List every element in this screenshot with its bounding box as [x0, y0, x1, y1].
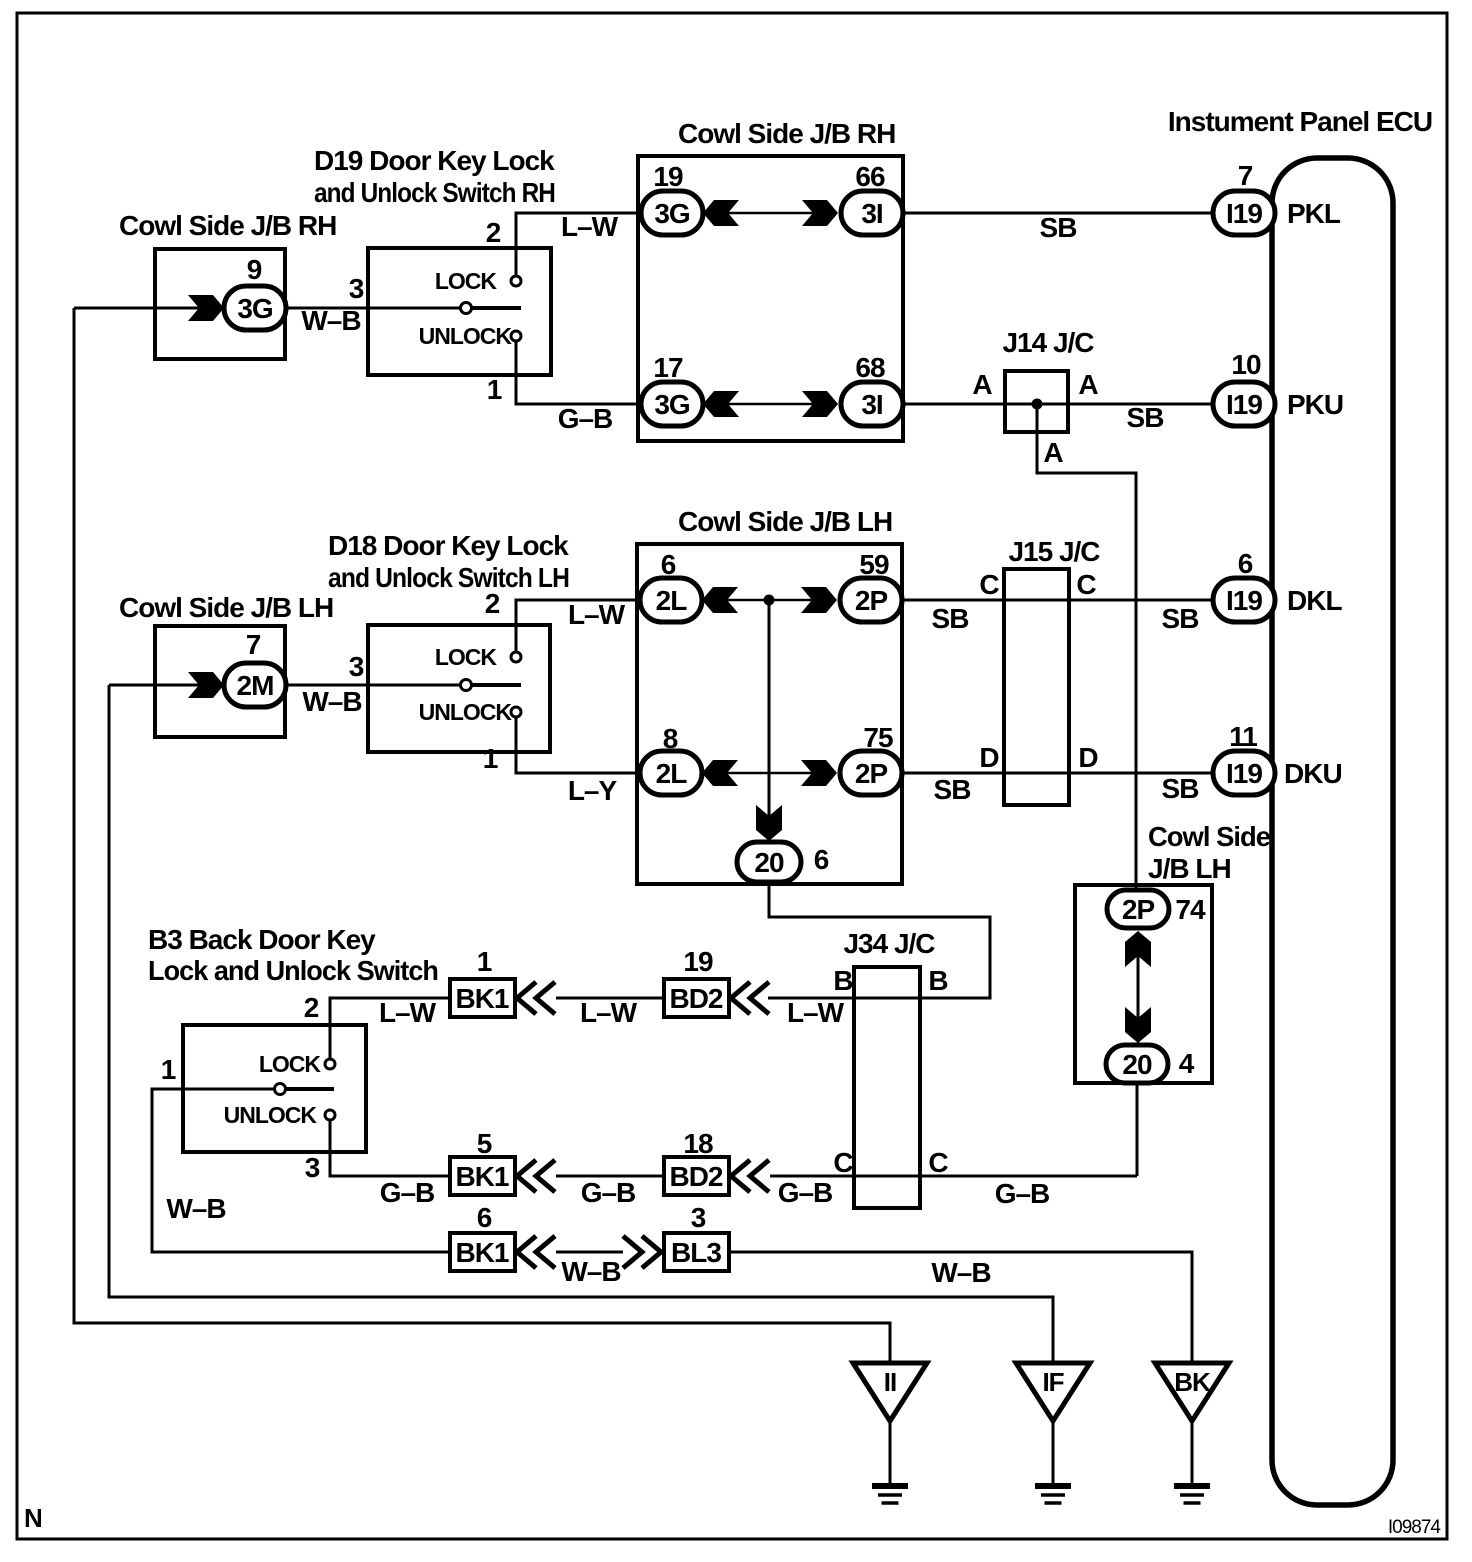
svg-text:L–W: L–W: [568, 599, 626, 630]
svg-text:J/B LH: J/B LH: [1148, 853, 1231, 884]
wire G-B BK1 to BD2: [556, 1175, 664, 1178]
svg-text:2: 2: [485, 588, 500, 619]
svg-text:74: 74: [1175, 894, 1206, 925]
svg-text:J34 J/C: J34 J/C: [843, 928, 935, 959]
ground II: [853, 1363, 927, 1421]
junction block Cowl Side J/B LH (center): [637, 544, 902, 884]
svg-text:A: A: [1078, 369, 1098, 400]
svg-text:D: D: [979, 742, 999, 773]
svg-text:1: 1: [161, 1054, 176, 1085]
connector oval 3G pin 9: [224, 286, 286, 330]
D18 LOCK contact: [511, 652, 521, 662]
arrow into 3G 17: [703, 391, 739, 417]
svg-text:C: C: [928, 1147, 948, 1178]
svg-text:19: 19: [653, 161, 683, 192]
svg-text:3: 3: [349, 273, 364, 304]
wire from J14 pin A down to Cowl Side J/B LH pin 74: [1037, 404, 1136, 890]
connector BL3 pin 3: [664, 1233, 729, 1271]
svg-text:BD2: BD2: [669, 983, 722, 1014]
arrow into J/B LH pin 7: [188, 672, 224, 698]
svg-text:5: 5: [477, 1128, 492, 1159]
D19 UNLOCK contact: [511, 331, 521, 341]
svg-text:11: 11: [1229, 721, 1257, 752]
connector oval 3I pin 66: [841, 191, 903, 235]
svg-text:and Unlock Switch LH: and Unlock Switch LH: [328, 562, 569, 593]
wire between 3G 17 and 3I 68: [712, 403, 830, 406]
svg-text:SB: SB: [934, 774, 971, 805]
svg-text:BK1: BK1: [455, 1237, 508, 1268]
wire D19 pin1 G-B to 3G pin 17: [516, 336, 641, 404]
svg-text:SB: SB: [1162, 773, 1199, 804]
svg-text:UNLOCK: UNLOCK: [224, 1102, 318, 1128]
svg-text:BK1: BK1: [455, 1161, 508, 1192]
junction block Cowl Side J/B RH (small, top left): [155, 249, 285, 359]
svg-text:A: A: [972, 369, 992, 400]
svg-text:PKL: PKL: [1287, 198, 1341, 229]
svg-text:20: 20: [754, 847, 784, 878]
svg-text:I19: I19: [1226, 758, 1262, 789]
svg-text:2: 2: [304, 992, 319, 1023]
connector chevrons at BK1 pin 5: [517, 1160, 536, 1192]
svg-text:59: 59: [859, 549, 889, 580]
svg-text:3G: 3G: [237, 293, 273, 324]
arrow into 3I 66: [802, 200, 838, 226]
svg-text:DKL: DKL: [1287, 585, 1342, 616]
D19 LOCK contact: [511, 276, 521, 286]
svg-text:L–W: L–W: [379, 997, 437, 1028]
svg-text:3I: 3I: [861, 198, 882, 229]
wire L-W BK1 to BD2: [556, 997, 664, 1000]
svg-text:20: 20: [1122, 1049, 1152, 1080]
wire SB 3I 66 to ECU PKL: [903, 212, 1213, 215]
svg-text:G–B: G–B: [778, 1177, 833, 1208]
arrow into J/B RH pin 9: [188, 295, 224, 321]
svg-text:3G: 3G: [654, 198, 690, 229]
svg-text:1: 1: [477, 946, 492, 977]
svg-text:18: 18: [683, 1128, 713, 1159]
svg-text:Cowl Side J/B LH: Cowl Side J/B LH: [119, 592, 333, 623]
connector oval 2P pin 75: [840, 751, 902, 795]
junction connector J34 J/C: [854, 967, 920, 1208]
wire B3 pin1 W-B down and to BK1 pin 6: [152, 1089, 450, 1252]
svg-text:3: 3: [349, 651, 364, 682]
svg-text:W–B: W–B: [301, 305, 360, 336]
svg-text:1: 1: [487, 374, 502, 405]
wire from J/B LH pin 20-6 to J34 pin B: [768, 882, 990, 998]
wire W-B from J/B LH pin 7 to ground IF: [109, 685, 1053, 1363]
svg-text:W–B: W–B: [302, 686, 361, 717]
svg-text:BK: BK: [1174, 1367, 1211, 1397]
connector chevrons at BK1 pin 6: [517, 1236, 536, 1268]
svg-text:2: 2: [486, 217, 501, 248]
svg-text:B: B: [928, 965, 947, 996]
junction connector J14 J/C: [1005, 371, 1068, 432]
wire W-B into J/B RH pin 9: [74, 307, 224, 310]
svg-text:D19 Door Key Lock: D19 Door Key Lock: [314, 145, 555, 176]
arrow into pin 20-4: [1125, 1007, 1151, 1043]
wire from J/B LH pin 4 down to G-B run: [1136, 1083, 1139, 1176]
arrow into 2L 8: [702, 760, 738, 786]
arrow into 2P 75: [801, 760, 837, 786]
arrow into 2P 59: [801, 587, 837, 613]
svg-text:N: N: [24, 1503, 42, 1533]
node A junction in J14: [1032, 399, 1043, 410]
wire D19 pin2 L-W to 3G pin 19: [516, 213, 641, 281]
connector oval 2P pin 59: [840, 578, 902, 622]
svg-text:C: C: [833, 1147, 853, 1178]
arrow into 3I 68: [802, 391, 838, 417]
svg-text:DKU: DKU: [1284, 758, 1342, 789]
switch D18 Door Key Lock and Unlock Switch LH: [368, 625, 550, 752]
wire W-B pin 3 of D18: [286, 684, 466, 687]
svg-text:BK1: BK1: [455, 983, 508, 1014]
svg-text:A: A: [1043, 437, 1063, 468]
svg-text:Cowl Side J/B LH: Cowl Side J/B LH: [678, 506, 892, 537]
connector oval 2L pin 6: [640, 578, 702, 622]
D19 common contact: [466, 306, 521, 310]
svg-text:9: 9: [247, 254, 262, 285]
svg-text:I19: I19: [1226, 585, 1262, 616]
B3 LOCK contact: [325, 1059, 335, 1069]
wire SB 2P 59 through J15 to ECU DKL: [902, 599, 1213, 602]
svg-text:7: 7: [246, 629, 261, 660]
svg-text:Cowl Side J/B RH: Cowl Side J/B RH: [678, 118, 895, 149]
wire W-B BK1 to BL3: [556, 1251, 623, 1254]
svg-text:8: 8: [663, 723, 678, 754]
svg-text:6: 6: [477, 1202, 492, 1233]
junction block Cowl Side J/B LH (small, mid left): [155, 626, 285, 737]
svg-text:W–B: W–B: [561, 1256, 620, 1287]
svg-text:W–B: W–B: [166, 1193, 225, 1224]
connector oval I19 DKL pin 6: [1213, 578, 1275, 622]
svg-text:75: 75: [863, 722, 893, 753]
connector oval 3I pin 68: [841, 382, 903, 426]
switch D19 Door Key Lock and Unlock Switch RH: [368, 248, 551, 375]
svg-text:J14 J/C: J14 J/C: [1002, 327, 1094, 358]
connector oval I19 PKL pin 7: [1213, 191, 1275, 235]
svg-text:B3 Back Door Key: B3 Back Door Key: [148, 924, 376, 955]
wire D18 pin1 L-Y to 2L pin 8: [516, 712, 640, 773]
junction block Cowl Side J/B RH (top center): [638, 156, 903, 441]
wire B3 pin2 L-W to BK1 pin 1: [330, 998, 450, 1064]
arrow into 2L 6: [702, 587, 738, 613]
svg-text:SB: SB: [1162, 603, 1199, 634]
svg-text:2P: 2P: [855, 758, 888, 789]
connector oval 20 pin 4: [1106, 1045, 1168, 1083]
svg-text:C: C: [1076, 569, 1096, 600]
connector chevrons at BD2 pin 18: [731, 1160, 750, 1192]
junction connector J15 J/C: [1004, 569, 1069, 805]
connector BK1 pin 5: [450, 1157, 515, 1195]
svg-text:19: 19: [683, 946, 713, 977]
svg-text:PKU: PKU: [1287, 389, 1343, 420]
connector chevrons at BD2 pin 19: [731, 982, 750, 1014]
connector oval I19 PKU pin 10: [1213, 382, 1275, 426]
svg-text:17: 17: [653, 352, 683, 383]
svg-text:I19: I19: [1226, 198, 1262, 229]
svg-text:SB: SB: [1040, 212, 1077, 243]
svg-text:BD2: BD2: [669, 1161, 722, 1192]
svg-text:Cowl Side J/B RH: Cowl Side J/B RH: [119, 210, 336, 241]
connector BD2 pin 19: [664, 979, 729, 1017]
wire W-B from J/B RH pin 9 to ground II: [74, 308, 890, 1363]
svg-text:2M: 2M: [237, 670, 274, 701]
svg-text:LOCK: LOCK: [259, 1051, 322, 1077]
svg-text:L–W: L–W: [580, 997, 638, 1028]
wire junction drop inside J/B LH to pin 20: [768, 600, 771, 820]
svg-text:6: 6: [661, 549, 676, 580]
svg-text:66: 66: [855, 161, 885, 192]
wire between 3G 19 and 3I 66: [712, 212, 830, 215]
svg-text:LOCK: LOCK: [435, 268, 498, 294]
svg-text:L–Y: L–Y: [568, 775, 618, 806]
B3 common contact: [280, 1087, 334, 1091]
D18 UNLOCK contact: [511, 707, 521, 717]
svg-text:W–B: W–B: [931, 1257, 990, 1288]
svg-text:G–B: G–B: [558, 403, 613, 434]
svg-text:Instument Panel ECU: Instument Panel ECU: [1168, 106, 1432, 137]
connector oval 2L pin 8: [640, 751, 702, 795]
svg-text:6: 6: [1238, 548, 1253, 579]
svg-text:C: C: [979, 569, 999, 600]
svg-text:UNLOCK: UNLOCK: [419, 323, 513, 349]
connector BK1 pin 1: [450, 979, 515, 1017]
wire W-B pin 3 of D19: [286, 307, 466, 310]
ground IF: [1016, 1363, 1090, 1421]
svg-text:1: 1: [483, 743, 498, 774]
svg-text:IF: IF: [1042, 1367, 1063, 1397]
svg-text:BL3: BL3: [671, 1237, 721, 1268]
svg-text:D18 Door Key Lock: D18 Door Key Lock: [328, 530, 569, 561]
svg-text:3G: 3G: [654, 389, 690, 420]
svg-text:68: 68: [855, 352, 885, 383]
svg-text:10: 10: [1231, 349, 1261, 380]
arrow into pin 74: [1125, 931, 1151, 967]
svg-text:SB: SB: [1127, 402, 1164, 433]
junction block Cowl Side J/B LH (right, pins 74/4): [1075, 885, 1212, 1083]
svg-text:I09874: I09874: [1388, 1517, 1442, 1538]
svg-text:LOCK: LOCK: [435, 644, 498, 670]
svg-text:B: B: [833, 965, 852, 996]
D18 common contact: [466, 683, 521, 687]
arrow into 3G 19: [703, 200, 739, 226]
connector BK1 pin 6: [450, 1233, 515, 1271]
svg-text:4: 4: [1179, 1048, 1195, 1079]
svg-text:2L: 2L: [656, 585, 688, 616]
wire D18 pin2 L-W to 2L pin 6: [516, 600, 640, 657]
wire between 2L 8 and 2P 75: [711, 772, 829, 775]
svg-text:J15 J/C: J15 J/C: [1008, 536, 1100, 567]
wire between 2L 6 and 2P 59: [711, 599, 829, 602]
wire SB 3I 68 through J14 to ECU PKU: [903, 403, 1213, 406]
svg-text:2P: 2P: [1122, 894, 1155, 925]
connector oval 20 pin 6: [737, 842, 801, 882]
svg-text:G–B: G–B: [581, 1177, 636, 1208]
ground BK: [1155, 1363, 1229, 1421]
B3 UNLOCK contact: [325, 1110, 335, 1120]
svg-text:G–B: G–B: [995, 1178, 1050, 1209]
svg-text:2P: 2P: [855, 585, 888, 616]
connector oval 2P pin 74: [1107, 890, 1169, 928]
connector oval 2M pin 7: [224, 663, 286, 707]
svg-text:3: 3: [305, 1152, 320, 1183]
connector oval I19 DKU pin 11: [1213, 751, 1275, 795]
svg-text:and Unlock Switch RH: and Unlock Switch RH: [314, 177, 555, 208]
svg-text:SB: SB: [932, 603, 969, 634]
svg-text:UNLOCK: UNLOCK: [419, 699, 513, 725]
svg-text:II: II: [884, 1367, 896, 1397]
svg-text:Cowl Side: Cowl Side: [1148, 821, 1270, 852]
svg-text:Lock and Unlock Switch: Lock and Unlock Switch: [148, 955, 438, 986]
connector chevrons at BL3 pin 3: [623, 1236, 642, 1268]
svg-text:G–B: G–B: [380, 1177, 435, 1208]
svg-text:L–W: L–W: [561, 211, 619, 242]
connector oval 3G pin 17: [641, 382, 703, 426]
svg-text:7: 7: [1238, 160, 1253, 191]
connector BD2 pin 18: [664, 1157, 729, 1195]
svg-text:3: 3: [691, 1202, 706, 1233]
svg-text:2L: 2L: [656, 758, 688, 789]
wire B3 pin3 G-B to BK1 pin 5: [330, 1115, 450, 1176]
connector chevrons at BK1 pin 1: [517, 982, 536, 1014]
svg-text:3I: 3I: [861, 389, 882, 420]
svg-text:I19: I19: [1226, 389, 1262, 420]
switch B3 Back Door Key Lock and Unlock Switch: [183, 1025, 366, 1152]
arrow into pin 20-6: [756, 805, 782, 841]
wire W-B from BL3 to ground BK: [729, 1252, 1192, 1363]
connector oval 3G pin 19: [641, 191, 703, 235]
Instrument Panel ECU body: [1272, 158, 1393, 1505]
wire G-B BD2 through J34 C to Cowl Side J/B LH pin 4: [770, 1175, 1137, 1178]
node junction in J/B LH: [764, 595, 775, 606]
wire W-B into J/B LH pin 7: [109, 684, 224, 687]
wire between pins 74 and 4: [1137, 945, 1140, 1030]
svg-text:D: D: [1078, 742, 1098, 773]
svg-text:6: 6: [814, 844, 829, 875]
svg-text:L–W: L–W: [787, 997, 845, 1028]
wire SB 2P 75 through J15 to ECU DKU: [902, 772, 1213, 775]
